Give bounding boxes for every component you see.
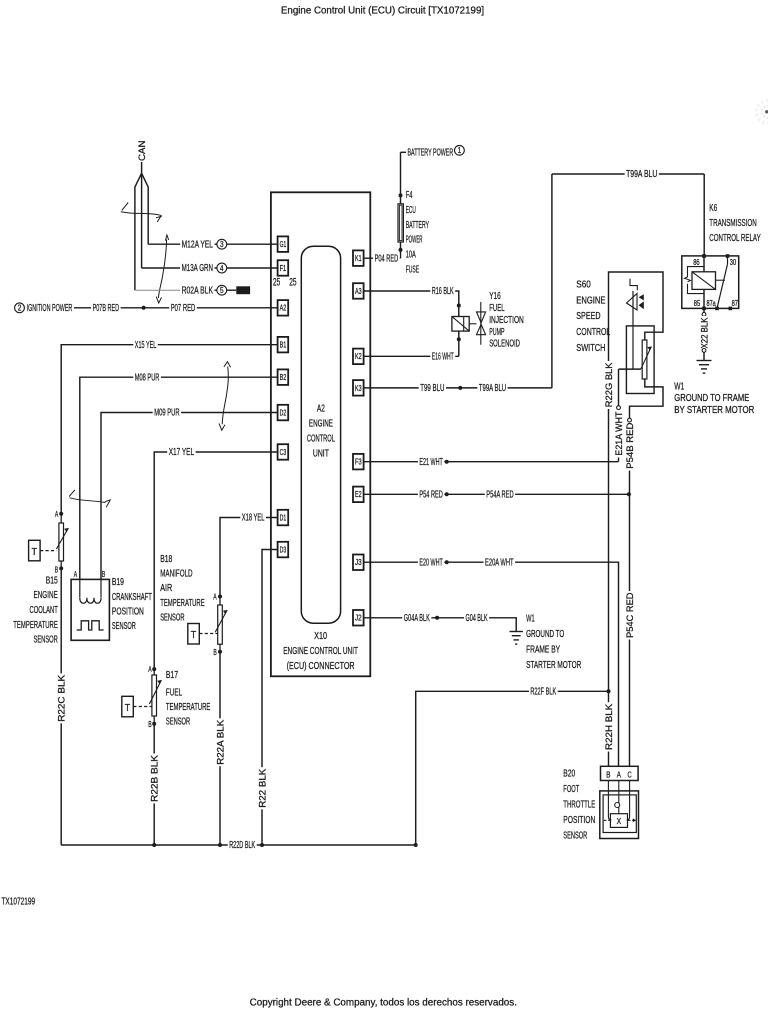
wire M08 PUR [80,377,278,579]
svg-text:B15: B15 [46,575,58,586]
wire R22H BLK [608,691,610,766]
svg-text:5: 5 [220,286,224,295]
relay pin 30 terminal [726,254,730,258]
svg-text:G04 BLK: G04 BLK [466,613,488,624]
svg-text:G1: G1 [280,240,287,249]
pin B2 [278,369,289,385]
node 1 BATTERY POWER [401,151,407,153]
svg-text:ENGINE: ENGINE [34,590,58,601]
svg-text:INJECTION: INJECTION [489,315,524,326]
wire T99 BLU [364,387,552,389]
svg-text:P07B RED: P07B RED [93,303,120,314]
svg-text:A3: A3 [355,287,362,296]
ground X22 [697,360,712,362]
connector circle 5 [217,285,227,295]
ground W1 starter [510,631,523,633]
svg-text:R22H BLK: R22H BLK [604,703,615,750]
svg-text:85: 85 [694,299,701,308]
svg-text:J3: J3 [355,558,362,567]
svg-text:D3: D3 [280,545,287,554]
svg-text:R22A BLK: R22A BLK [216,719,227,765]
svg-text:P04 RED: P04 RED [375,253,399,264]
wire S60 bottom out [630,379,664,418]
potentiometer S60 [642,340,647,379]
svg-text:P54A RED: P54A RED [486,490,513,501]
svg-text:X18 YEL: X18 YEL [242,513,265,524]
connector B20 pins B A C [601,766,639,780]
svg-text:AIR: AIR [160,583,172,594]
relay pin 85 terminal [702,307,706,311]
B20 mechanical link dashes [604,819,610,821]
svg-text:UNIT: UNIT [313,448,329,459]
junction R22B [152,843,156,847]
shield terminator block [236,286,250,294]
svg-text:D1: D1 [280,513,287,522]
wire CAN twisted pair [135,173,142,290]
junction P54A/P54B [627,492,631,496]
svg-text:B2: B2 [280,373,287,382]
svg-text:PUMP: PUMP [489,327,504,338]
splice E21 [445,460,449,464]
svg-text:POSITION: POSITION [563,815,595,826]
pin D3 [278,542,289,558]
svg-text:M09 PUR: M09 PUR [154,408,179,419]
wire R16 BLK [364,291,459,317]
svg-text:E16 WHT: E16 WHT [432,352,454,363]
svg-text:POWER: POWER [406,235,423,246]
svg-text:SENSOR: SENSOR [112,621,136,632]
svg-text:2: 2 [18,304,22,313]
S60 inner box [626,326,654,394]
svg-text:E21A WHT: E21A WHT [614,411,625,455]
wire R02A BLK shield [135,289,182,291]
relay pin 87 terminal [729,307,733,311]
relay K6 box [682,256,739,309]
splice junction P07 [142,306,146,310]
wire M12A YEL [148,243,277,245]
svg-text:BY STARTER MOTOR: BY STARTER MOTOR [674,405,754,416]
node 2 IGNITION POWER [15,303,25,313]
wire relay coil feed [703,174,705,256]
svg-text:B: B [606,770,611,779]
wire X15 YEL [61,345,277,514]
svg-text:B: B [102,570,106,579]
wire T99A BLU top run [552,173,704,175]
coil B19 [79,579,81,597]
svg-text:SPEED: SPEED [576,311,600,322]
svg-text:T99A BLU: T99A BLU [626,169,657,180]
junction R22F/R22G/R22H [607,689,611,693]
B20 internal wires [608,781,611,820]
svg-text:K2: K2 [355,352,362,361]
svg-text:F1: F1 [280,264,287,273]
svg-text:P54B RED: P54B RED [625,422,636,468]
wire R22 BLK [257,767,267,809]
svg-text:A2: A2 [280,304,287,313]
svg-text:X10: X10 [314,631,327,642]
svg-text:ENGINE CONTROL UNIT: ENGINE CONTROL UNIT [283,646,358,657]
pin A3 [353,283,364,299]
connector circle 4 [217,263,227,273]
svg-text:X15 YEL: X15 YEL [135,340,157,351]
svg-text:ENGINE: ENGINE [309,419,333,430]
junction fuse top [399,193,403,197]
wire R22C BLK [60,568,62,845]
wire R22A BLK [219,652,221,845]
thermistor B17 [153,669,155,675]
svg-text:R02A BLK: R02A BLK [182,285,213,296]
wire T99A BLU riser [551,174,553,388]
svg-text:B18: B18 [160,554,172,565]
wire M09 PUR [101,413,278,580]
svg-text:GROUND TO FRAME: GROUND TO FRAME [674,393,749,404]
svg-text:M08 PUR: M08 PUR [135,372,160,383]
switch symbol S60 [630,279,637,291]
svg-text:BATTERY POWER: BATTERY POWER [408,148,454,159]
svg-text:R22G BLK: R22G BLK [604,362,615,407]
svg-text:B: B [55,566,59,575]
T box B18 [188,624,200,645]
svg-text:Copyright Deere & Company, tod: Copyright Deere & Company, todos los der… [250,998,517,1009]
svg-text:A: A [148,665,152,674]
svg-text:TEMPERATURE: TEMPERATURE [13,620,58,631]
svg-text:T99 BLU: T99 BLU [420,383,444,394]
svg-text:TX1072199: TX1072199 [1,896,35,907]
pin E2 [353,487,364,503]
wire switch to wiper [632,291,634,369]
svg-text:TEMPERATURE: TEMPERATURE [160,598,205,609]
svg-text:W1: W1 [674,382,684,393]
svg-text:TEMPERATURE: TEMPERATURE [166,702,211,713]
svg-text:M13A GRN: M13A GRN [182,263,213,274]
wire E20 WHT / E20A WHT [364,562,619,766]
svg-text:10A: 10A [406,250,416,261]
pin A2 [278,300,289,316]
pin B1 [278,337,289,353]
watermark dot page edge [765,110,768,113]
svg-text:C3: C3 [280,448,287,457]
svg-text:CRANKSHAFT: CRANKSHAFT [112,592,152,603]
pin D1 [278,510,289,526]
wire P04 RED [364,257,401,259]
svg-text:A: A [617,770,622,779]
thermistor B15 [60,514,62,523]
svg-text:3: 3 [220,240,224,249]
pin G1 [278,236,289,252]
svg-text:B19: B19 [112,577,124,588]
wire R22F BLK [416,691,609,845]
svg-text:POSITION: POSITION [112,606,144,617]
svg-text:ENGINE: ENGINE [576,295,605,306]
pin J2 [353,610,364,626]
svg-text:S60: S60 [576,279,591,290]
svg-text:F4: F4 [406,190,413,201]
sensor B20 box [600,791,639,839]
svg-text:THROTTLE: THROTTLE [563,800,595,811]
junction solenoid bottom [458,331,460,356]
fuse F4 [398,204,403,242]
svg-text:T: T [191,629,197,641]
svg-text:R22 BLK: R22 BLK [258,768,269,808]
suppressor element [685,277,691,282]
relay actuation link [716,279,725,281]
relay coil K6 [692,272,716,290]
svg-text:R22C BLK: R22C BLK [57,674,68,722]
wire S60 supply loop R22G [609,272,664,361]
svg-text:BATTERY: BATTERY [406,220,429,231]
svg-text:SENSOR: SENSOR [160,612,184,623]
svg-text:SOLENOID: SOLENOID [489,339,520,350]
pin K1 [353,250,364,266]
svg-text:T: T [32,546,38,558]
svg-text:B1: B1 [280,341,287,350]
junction fuse bottom [400,242,402,258]
svg-text:CONTROL: CONTROL [576,327,610,338]
junction R22A [218,843,222,847]
wire P54 RED / P54A RED [364,493,629,495]
svg-text:Engine Control Unit (ECU) Circ: Engine Control Unit (ECU) Circuit [TX107… [281,5,484,16]
svg-text:25: 25 [273,277,280,289]
svg-text:MANIFOLD: MANIFOLD [160,569,192,580]
svg-text:ECU: ECU [406,205,416,216]
wire CAN stem [141,162,143,173]
svg-text:F3: F3 [355,458,362,467]
svg-text:E21 WHT: E21 WHT [419,457,443,468]
wire X22 BLK [703,308,705,313]
svg-text:B: B [213,648,217,657]
svg-text:J2: J2 [355,614,362,623]
junction bottom right [414,843,418,847]
svg-text:STARTER MOTOR: STARTER MOTOR [526,660,581,671]
wire battery to fuse [400,152,402,204]
svg-text:SENSOR: SENSOR [34,635,58,646]
wire R22B BLK [153,724,155,845]
B20 position element X [610,814,627,828]
svg-text:SWITCH: SWITCH [576,343,605,354]
svg-text:P54C RED: P54C RED [625,592,636,638]
pin J3 [353,555,364,571]
dashed link B15 [40,550,56,552]
pin C3 [278,444,289,460]
svg-text:TRANSMISSION: TRANSMISSION [709,218,756,229]
relay contact arm [727,256,729,264]
svg-text:FUEL: FUEL [489,303,505,314]
pin K2 [353,349,364,365]
svg-text:P54 RED: P54 RED [419,490,442,501]
wire E21A WHT [618,369,620,406]
wire P07 RED [169,303,197,313]
twist mark vertical over CAN wires [156,235,169,303]
junction solenoid top [457,304,461,308]
ECU connector X10 outline [271,192,370,676]
connector circle 3 [217,239,227,249]
svg-text:K1: K1 [355,254,362,263]
svg-text:A2: A2 [317,404,325,415]
wire R22D BLK bottom bus [61,844,416,846]
svg-text:CAN: CAN [137,140,148,161]
svg-text:C: C [628,770,632,779]
svg-text:P07 RED: P07 RED [171,303,196,314]
wire P07B RED [74,307,278,309]
pin F1 [278,260,289,276]
pin K3 [353,380,364,396]
wire D3 to R22 BLK [262,550,278,846]
svg-text:E20A WHT: E20A WHT [485,557,514,568]
T box B15 [29,540,40,561]
svg-text:CONTROL: CONTROL [307,433,335,444]
svg-text:E20 WHT: E20 WHT [419,557,443,568]
sensor B19 box [71,579,109,640]
svg-text:K6: K6 [709,203,717,214]
svg-text:CONTROL RELAY: CONTROL RELAY [709,233,760,244]
svg-text:W1: W1 [526,614,535,625]
svg-text:87a: 87a [707,299,717,308]
dashed link B17 [133,706,152,708]
ECU A2 inner outline [301,246,340,623]
svg-text:B17: B17 [166,670,178,681]
svg-text:B: B [148,720,152,729]
wire E16 WHT [364,355,459,357]
svg-text:25: 25 [289,276,296,288]
svg-text:86: 86 [693,258,699,267]
svg-text:K3: K3 [355,384,362,393]
wire G04A BLK / G04 BLK [364,618,517,632]
wire M13A GRN [142,267,278,269]
twist mark over M08/M09 pair [219,362,231,431]
solenoid coil Y16 [452,317,469,332]
svg-text:R22D BLK: R22D BLK [229,840,255,851]
svg-text:FOOT: FOOT [563,784,579,795]
svg-text:A: A [213,592,217,601]
svg-text:SENSOR: SENSOR [166,716,190,727]
svg-text:X17 YEL: X17 YEL [169,447,195,458]
svg-text:X22 BLK: X22 BLK [700,317,711,349]
svg-text:M12A YEL: M12A YEL [182,239,214,250]
relay pin 86 terminal [702,254,706,258]
svg-text:T: T [125,702,131,714]
svg-text:B20: B20 [563,769,575,780]
svg-text:30: 30 [730,258,737,267]
wire E21 WHT [364,461,619,463]
square wave symbol B19 [77,621,104,630]
relay coil side branch [688,267,705,277]
svg-text:Y16: Y16 [489,291,501,302]
svg-text:T99A BLU: T99A BLU [479,383,506,394]
svg-text:FUEL: FUEL [166,688,182,699]
svg-text:D2: D2 [280,408,287,417]
svg-text:4: 4 [220,264,224,273]
pin F3 [353,454,364,470]
junction R22 [260,843,264,847]
valve symbol Y16 [480,302,482,345]
svg-text:X: X [617,817,622,826]
dashed link B18 [199,633,217,635]
wire X18 YEL [220,518,278,597]
svg-text:R22F BLK: R22F BLK [530,687,556,698]
twist mark upper [121,203,162,222]
svg-text:GROUND TO: GROUND TO [526,629,564,640]
relay pin 87a terminal [715,307,719,311]
svg-text:COOLANT: COOLANT [30,605,59,616]
wire wiper [619,368,641,370]
splice G04 [435,616,439,620]
wire P54C RED [629,494,631,766]
svg-text:A: A [55,510,59,519]
svg-text:87: 87 [732,299,738,308]
svg-text:SENSOR: SENSOR [563,831,587,842]
splice junction T99 [458,386,462,390]
svg-text:R22B BLK: R22B BLK [150,754,161,802]
T box B17 [122,696,134,717]
svg-text:FUSE: FUSE [406,265,419,276]
thermistor B18 [219,597,221,606]
svg-text:R16 BLK: R16 BLK [432,286,454,297]
svg-text:(ECU) CONNECTOR: (ECU) CONNECTOR [287,661,355,672]
wire X17 YEL [154,452,277,669]
svg-text:G04A BLK: G04A BLK [404,613,430,624]
twist mark over B19 pair [69,490,110,508]
svg-text:A: A [74,570,78,579]
svg-text:1: 1 [458,146,462,155]
svg-text:FRAME BY: FRAME BY [526,645,560,656]
pin D2 [278,405,289,421]
svg-text:IGNITION POWER: IGNITION POWER [27,303,73,314]
svg-text:E2: E2 [355,490,362,499]
